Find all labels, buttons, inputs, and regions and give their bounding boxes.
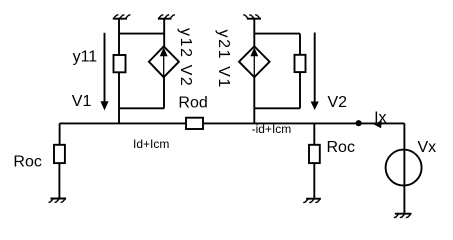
svg-text:y12 V2: y12 V2 bbox=[177, 28, 194, 87]
svg-text:Id+Icm: Id+Icm bbox=[133, 137, 169, 151]
ground G3 (top, over VCCS y21V1, mirrored) bbox=[243, 15, 261, 19]
ground G6 (below Vx) bbox=[394, 214, 412, 218]
wire right side of right loop (top) bbox=[299, 34, 301, 55]
resistor y11 bbox=[114, 55, 126, 72]
voltage source Vx (circle) bbox=[386, 150, 422, 186]
svg-text:V2: V2 bbox=[328, 94, 348, 111]
svg-text:Roc: Roc bbox=[327, 139, 355, 156]
arrow V2 (port voltage arrow, right) bbox=[311, 33, 319, 111]
wire VCCS U1 bottom to bottom of left loop bbox=[163, 77, 165, 108]
resistor Roc (left) bbox=[54, 145, 65, 163]
svg-text:-id+Icm: -id+Icm bbox=[252, 122, 292, 136]
wire bus down to left Roc bbox=[59, 123, 61, 144]
wire ground G2 to VCCS y12V2 bbox=[163, 19, 165, 47]
wire right Roc to ground G5 bbox=[313, 163, 315, 199]
wire bottom of right loop bbox=[254, 107, 300, 109]
resistor (right loop) bbox=[295, 55, 306, 72]
arrow Ix (current arrowhead on bus, pointing left) bbox=[374, 120, 382, 128]
svg-text:Roc: Roc bbox=[13, 154, 41, 171]
wire top of right loop bbox=[254, 33, 300, 35]
VCCS U2 (y21 V1) diamond bbox=[239, 46, 270, 77]
wire top of left loop bbox=[119, 33, 164, 35]
node dot (junction on bus) bbox=[356, 120, 362, 126]
ground G2 (top, over VCCS y12V2) bbox=[158, 15, 175, 19]
VCCS U1 (y12 V2) diamond bbox=[149, 46, 179, 77]
wire bottom of left loop bbox=[119, 107, 164, 109]
resistor Roc (right) bbox=[309, 145, 320, 163]
wire VCCS U2 bottom down to main bus bbox=[253, 77, 255, 123]
main bus wire (right of Rod) bbox=[203, 122, 404, 124]
wire resistor y11 bottom down to main bus bbox=[118, 72, 120, 123]
svg-text:Rod: Rod bbox=[178, 95, 207, 112]
ground G1 (top, over y11 resistor) bbox=[113, 15, 131, 19]
ground G4 (below left Roc) bbox=[49, 199, 67, 203]
wire ground G1 to resistor y11 bbox=[118, 19, 120, 55]
svg-text:Ix: Ix bbox=[374, 109, 386, 126]
svg-text:y21 V1: y21 V1 bbox=[215, 30, 232, 89]
ground G5 (below right Roc) bbox=[303, 199, 321, 203]
wire right side of right loop (bottom) bbox=[299, 72, 301, 108]
resistor Rod bbox=[186, 118, 203, 129]
svg-text:y11: y11 bbox=[73, 49, 98, 66]
wire bus corner down to source Vx bbox=[403, 123, 405, 213]
main bus wire (left of Rod) bbox=[60, 122, 186, 124]
svg-text:V1: V1 bbox=[72, 93, 92, 110]
arrow V1 (port voltage arrow, left) bbox=[100, 33, 108, 111]
wire bus down to right Roc bbox=[313, 123, 315, 144]
wire ground G3 to VCCS y21V1 bbox=[253, 19, 255, 47]
svg-text:Vx: Vx bbox=[418, 139, 437, 156]
wire left Roc to ground G4 bbox=[58, 163, 60, 198]
